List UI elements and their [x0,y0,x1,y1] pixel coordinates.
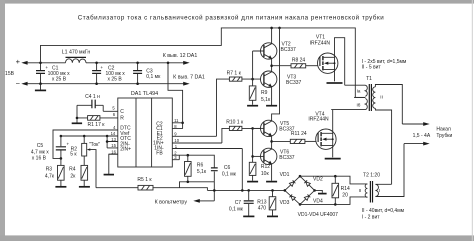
ground under R4 [79,186,90,188]
resistor R4 [69,165,88,186]
T2 winding I [375,144,404,197]
svg-text:VT1: VT1 [316,34,325,40]
svg-text:К выв. 7 DA1: К выв. 7 DA1 [173,75,205,81]
svg-text:4,7к: 4,7к [45,174,55,180]
svg-text:IRFZ44N: IRFZ44N [310,41,331,47]
transistor VT5 [253,28,295,141]
IC DA1 TL494 [118,91,173,167]
wire E2 pin10 riser to R10 [222,128,230,143]
ground under R12 [247,181,258,183]
svg-text:470: 470 [258,205,267,211]
transistor VT2 [253,28,296,79]
wire to voltmeter [199,200,214,202]
svg-text:1,5 - 4А: 1,5 - 4А [413,133,431,139]
svg-text:I: I [379,188,380,193]
ground under VT4 source [325,158,341,160]
main sense bus [207,189,284,191]
T1 center tap [354,96,365,98]
transformer T2 [359,144,404,203]
resistor R7 [227,70,264,81]
output arrow 1 [402,123,423,125]
capacitor C1 [36,62,70,85]
transistor VT6 [253,140,295,181]
svg-text:Трубки: Трубки [436,133,452,139]
svg-text:Iа: Iа [357,89,361,94]
svg-text:IRFZ44N: IRFZ44N [308,116,329,122]
dots on +15 top wire [270,27,273,30]
pin numbers right [174,118,180,160]
capacitor C6 [211,165,237,182]
wire Vref pin14 net [61,135,118,137]
T1 secondary II [373,85,403,185]
T1 primary Ib [331,99,367,110]
svg-text:14: 14 [111,131,116,136]
svg-text:11: 11 [174,118,179,123]
svg-text:15В: 15В [5,71,15,77]
diode bridge VD1-VD4 [280,172,323,206]
wire DTC pin4 net [53,130,118,159]
capacitor C4 [77,94,103,111]
svg-text:BC337: BC337 [281,47,297,53]
pin stubs left [53,111,118,154]
resistor R9 [249,79,271,105]
capacitor C5 [31,136,70,161]
wire feed to pins 11/8 [168,63,183,129]
diode VD4 [304,194,310,200]
svg-text:II - 5 вит: II - 5 вит [362,65,382,71]
svg-text:R5 1 к: R5 1 к [137,177,152,183]
wire pin1 to bus [241,149,243,191]
capacitor C3 [133,62,161,85]
wire bottom rail [27,83,184,85]
svg-text:R6: R6 [197,163,204,169]
wire R6/C6 bottom net [180,182,215,201]
pin stubs right [172,123,242,160]
input terminal - [16,79,28,88]
svg-text:К выв. 12 DA1: К выв. 12 DA1 [163,53,198,59]
svg-text:+: + [67,141,70,146]
svg-text:VD4: VD4 [313,198,323,204]
svg-text:+: + [16,57,21,66]
svg-text:5 к: 5 к [70,151,77,157]
svg-text:C6: C6 [224,165,231,171]
svg-text:II - 40вит, d=0,4мм: II - 40вит, d=0,4мм [362,208,405,214]
ground under R1 node [76,119,78,123]
ground under C1 [40,84,42,90]
svg-text:R4: R4 [69,167,76,173]
svg-text:0,1 мк: 0,1 мк [229,207,244,213]
svg-text:C: C [120,109,124,115]
svg-text:10: 10 [174,138,179,143]
svg-text:2IN+: 2IN+ [120,147,131,153]
transistor VT3 [261,64,302,105]
svg-text:х 16 В: х 16 В [32,155,47,161]
svg-text:"Ток": "Ток" [89,142,100,148]
output arrow 2 [404,143,424,145]
arrow to pin 12 DA1 [183,61,190,65]
svg-text:Т1: Т1 [366,76,372,82]
svg-text:х 25 В: х 25 В [108,77,123,83]
svg-text:0,1 мк: 0,1 мк [222,171,237,177]
ground under R3 [55,186,66,188]
ground under R13 [267,215,278,217]
svg-text:R11 24: R11 24 [291,131,307,137]
diode VD2 [304,180,310,186]
svg-text:R1 17 к: R1 17 к [88,122,106,128]
diode VD3 [289,194,295,200]
svg-text:Накал: Накал [436,126,450,132]
diode VD1 [289,180,295,186]
ground under R9 [247,105,258,107]
svg-text:R14: R14 [341,186,350,192]
svg-text:Т2 1:20: Т2 1:20 [363,173,380,179]
svg-text:Стабилизатор тока с гальваниче: Стабилизатор тока с гальванической развя… [78,15,385,22]
svg-text:BC337: BC337 [286,80,302,86]
svg-text:R9: R9 [261,90,268,96]
resistor R5 [96,177,207,190]
resistor R8 [272,57,320,68]
svg-text:L1 470 мкГн: L1 470 мкГн [62,49,91,55]
svg-text:Iб: Iб [357,102,361,107]
svg-text:5,1к: 5,1к [197,169,207,175]
MOSFET VT1 [310,34,345,85]
svg-text:BC337: BC337 [279,155,295,161]
svg-text:+: + [45,65,48,70]
ground under VT3 [266,105,277,107]
svg-text:R3: R3 [46,167,53,173]
svg-text:х 25 В: х 25 В [52,77,67,83]
resistor R3 [45,158,64,186]
wire +15V feed to top right [41,28,366,98]
svg-text:C5: C5 [37,143,44,149]
wire pins 13-15 tie [106,136,108,148]
svg-text:R7 1 к: R7 1 к [227,70,242,76]
svg-text:C4 1 н: C4 1 н [85,94,100,100]
svg-text:+: + [100,65,103,70]
wire pin16 to ground [109,154,118,174]
bridge right corner to ground [315,190,323,192]
T1 primary Ia [345,85,368,96]
svg-text:R10 1 к: R10 1 к [226,120,244,126]
T2 winding II [365,184,367,198]
capacitor C2 [92,62,125,85]
svg-text:R12: R12 [261,164,270,170]
svg-text:II: II [359,188,362,193]
resistor R11 [272,131,319,144]
svg-text:DA1 TL494: DA1 TL494 [131,91,158,97]
svg-text:0,1 мк: 0,1 мк [146,74,161,80]
svg-text:VD2: VD2 [313,177,323,183]
resistor R12 [249,128,270,180]
resistor R1 [76,105,106,128]
wire pins 2-3 tie [178,155,180,160]
svg-text:2к: 2к [70,174,76,180]
svg-text:I - 2 вит: I - 2 вит [362,214,380,220]
potentiometer R2 [70,136,100,188]
svg-text:10к: 10к [261,171,270,177]
arrow to pin 7 DA1 [183,82,190,86]
wire bridge top to T2 [300,176,367,184]
MOSFET VT4 [308,110,336,158]
ground under VT6 [266,181,277,183]
capacitor C7 [229,190,254,215]
svg-text:−: − [16,79,21,88]
svg-text:C7: C7 [235,200,242,206]
svg-text:R: R [120,116,124,122]
wire top rail [27,62,184,64]
svg-text:К вольтметру: К вольтметру [155,199,188,205]
wire E1 pin9 riser to R7 [217,79,230,136]
wire bridge bottom to T2 [300,197,367,205]
svg-text:5,1к: 5,1к [261,97,271,103]
svg-text:R8 24: R8 24 [292,57,306,63]
input terminal + [16,57,28,66]
svg-text:20: 20 [342,192,348,198]
resistor R13 [257,190,275,215]
resistor R10 [226,120,264,131]
resistor R14 [332,176,350,204]
svg-text:VD1: VD1 [280,172,290,178]
wire FB net [179,155,214,168]
transformer T1 [331,76,402,184]
svg-text:FB: FB [156,150,163,156]
ground under VT1 source [327,82,343,84]
svg-text:VD1-VD4 UF4007: VD1-VD4 UF4007 [298,212,339,218]
pin numbers left [111,105,117,154]
svg-text:VD3: VD3 [280,200,290,206]
svg-text:II: II [380,94,383,99]
ground under C7 [243,215,254,217]
inductor L1 [62,49,91,62]
resistor R6 [185,155,207,182]
